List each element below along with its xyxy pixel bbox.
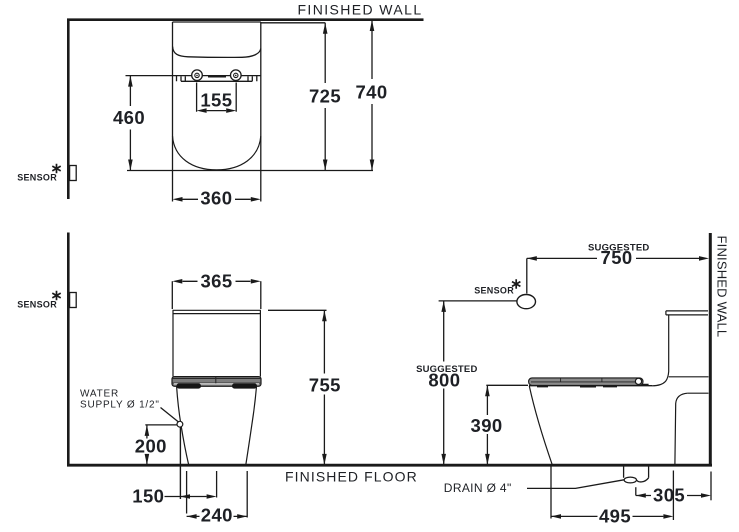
tank front edge (side view)	[668, 315, 670, 372]
svg-text:240: 240	[201, 505, 233, 526]
lid dash (plan)	[208, 75, 226, 77]
svg-text:725: 725	[309, 86, 341, 107]
390 dimension	[486, 384, 528, 386]
tank bottom curve (plan)	[173, 47, 261, 58]
740 dimension line	[371, 20, 373, 171]
seat rim underline (side)	[529, 385, 652, 387]
drain leader	[527, 480, 624, 489]
finished floor line	[67, 464, 712, 467]
water supply leader	[161, 408, 179, 422]
svg-text:390: 390	[471, 415, 503, 436]
150 dimension	[165, 496, 207, 498]
svg-text:SENSOR: SENSOR	[17, 300, 57, 310]
sensor ellipse (side view)	[517, 295, 536, 309]
svg-text:155: 155	[200, 90, 232, 111]
svg-text:800: 800	[428, 369, 460, 390]
155 dimension extensions	[197, 83, 237, 112]
tank bottom line (side view)	[669, 376, 709, 378]
bowl back corner curve	[652, 372, 669, 386]
svg-text:FINISHED FLOOR: FINISHED FLOOR	[285, 469, 418, 485]
svg-text:200: 200	[135, 436, 167, 457]
bowl front edge (side)	[529, 386, 552, 465]
sensor asterisk (top view)	[52, 164, 60, 174]
pedestal left edge (front)	[177, 386, 189, 465]
750 corner vertical	[526, 258, 528, 293]
755 extension from tank top	[268, 309, 327, 311]
hinge plate (plan)	[177, 76, 257, 82]
finished wall line (top view)	[67, 18, 424, 21]
hinge dark dash	[632, 384, 649, 386]
shelf line to wall	[687, 392, 708, 394]
365 dimension	[172, 281, 260, 309]
right wall	[709, 233, 712, 464]
svg-text:SENSOR: SENSOR	[474, 286, 514, 296]
svg-text:FINISHED WALL: FINISHED WALL	[715, 236, 730, 338]
svg-text:WATER: WATER	[80, 389, 119, 400]
svg-text:SUPPLY Ø 1/2": SUPPLY Ø 1/2"	[80, 400, 160, 411]
plan rect left side / 360 extension	[172, 22, 174, 202]
755 dimension line	[323, 310, 325, 465]
svg-text:495: 495	[599, 506, 631, 527]
tank top extension to 725	[261, 22, 325, 24]
bowl U curve (plan)	[173, 136, 261, 170]
sensor box (top view)	[70, 166, 77, 181]
svg-text:755: 755	[309, 375, 341, 396]
svg-text:FINISHED WALL: FINISHED WALL	[297, 2, 422, 18]
sensor box (front view)	[70, 293, 77, 308]
svg-text:SENSOR: SENSOR	[17, 173, 57, 183]
sensor asterisk (front view)	[52, 291, 60, 301]
hinge cap circle (side)	[635, 378, 641, 384]
305 dimension	[635, 487, 637, 495]
seat band (front view)	[172, 377, 261, 387]
plan rect right side / 360 extension	[260, 22, 262, 202]
460 dimension line	[129, 76, 131, 171]
360 dimension	[183, 198, 251, 200]
495 dimension	[551, 467, 673, 521]
200 dimension	[145, 424, 177, 426]
svg-text:305: 305	[653, 485, 685, 506]
water supply extension line	[179, 427, 181, 499]
svg-text:360: 360	[200, 188, 232, 209]
725 dimension line	[324, 23, 326, 171]
left wall (front view)	[67, 233, 70, 465]
pedestal back curve	[675, 393, 688, 464]
bolt circle right (plan)	[231, 70, 242, 81]
240 dimension extensions	[187, 471, 248, 518]
suggested 800 dimension	[439, 300, 517, 302]
svg-text:740: 740	[355, 82, 387, 103]
drain pipe below floor	[624, 467, 649, 478]
tank lid (side view)	[666, 311, 708, 315]
water supply circle	[177, 421, 183, 427]
155 dimension line + arrows	[207, 110, 227, 112]
svg-text:750: 750	[601, 247, 633, 268]
tank top edge (plan)	[173, 21, 261, 23]
tank (front view)	[173, 310, 261, 376]
left wall (top view)	[67, 19, 70, 199]
bolt circle left (plan)	[192, 70, 203, 81]
pedestal right edge (front)	[246, 386, 257, 465]
svg-text:365: 365	[200, 271, 232, 292]
seat strip (side view)	[529, 378, 643, 386]
seat hinge line (plan)	[126, 75, 261, 77]
svg-text:DRAIN Ø 4": DRAIN Ø 4"	[444, 481, 512, 495]
240 dimension	[187, 515, 248, 517]
svg-text:150: 150	[132, 486, 164, 507]
svg-text:460: 460	[113, 107, 145, 128]
front face line (plan)	[127, 170, 373, 172]
